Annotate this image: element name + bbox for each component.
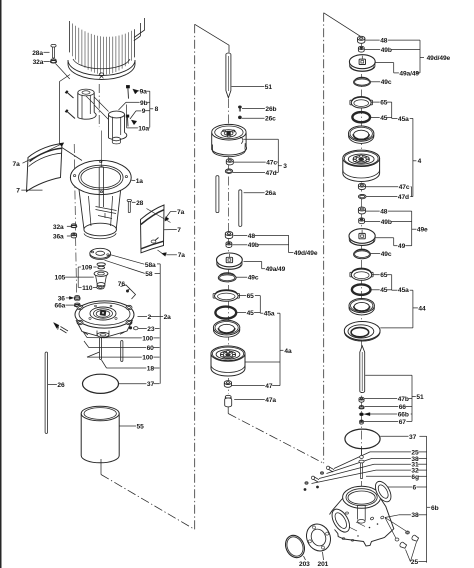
svg-text:7a: 7a [13,161,21,168]
side screw axis [74,144,76,293]
svg-text:65: 65 [247,293,255,300]
casing left port [328,506,353,535]
svg-text:26a: 26a [265,190,276,197]
label 47c r1 [366,184,410,191]
svg-text:49d/49e: 49d/49e [427,55,451,62]
svg-text:23: 23 [147,326,155,333]
svg-text:51: 51 [265,84,273,91]
impeller 49a r1 [349,55,375,72]
bracket 109-110 [78,267,81,287]
label 49a/49 mid [266,266,286,273]
svg-text:4a: 4a [284,348,292,355]
nut 47b [359,397,364,402]
label 100 lower [87,352,160,362]
label 105 [55,275,94,282]
label 7a left [13,161,21,168]
svg-text:48: 48 [380,209,388,216]
svg-text:7a: 7a [177,209,185,216]
casing 6 top flange [343,486,381,508]
label 38 bottom [399,512,427,519]
chamber 4 [343,150,380,181]
washer 66a [74,303,80,307]
label 110 [82,285,96,292]
washer 66b [360,413,364,416]
shaft seal 105 [94,271,108,288]
svg-text:47c: 47c [399,184,410,191]
stool body [79,190,121,239]
nut 49b r2 [359,218,365,224]
label 28a [32,50,49,57]
label 48 r2 [366,209,412,216]
svg-text:48: 48 [248,233,256,240]
seal driver seen through window [96,207,117,219]
section boundary right corner [324,13,362,37]
leader 36 with arrow [66,296,74,299]
label 49b r1 [365,47,420,54]
screw 6g [359,448,364,500]
label 60 [84,341,160,352]
impeller 49a mid [217,253,243,269]
section boundary mid diagonal [228,414,324,464]
label 49e [417,227,428,234]
coupling explode lines [86,96,109,120]
coupling half 10a upper [78,89,96,119]
label 9 [130,108,150,119]
svg-text:2a: 2a [164,314,172,321]
svg-text:25: 25 [411,559,419,566]
svg-text:2: 2 [148,314,152,321]
label 9a [140,89,150,96]
section boundary right vertical [323,13,325,464]
bracket 45a mid [260,296,263,314]
washer 38c [395,538,399,541]
o-ring 45 mid [215,307,236,319]
sleeve 55 [81,406,119,463]
svg-text:100: 100 [142,355,153,362]
coupling screw 9 right [126,115,129,127]
flange 201 [302,520,334,555]
leader 7a left [23,143,64,163]
pump head corner lugs [77,305,132,324]
svg-text:201: 201 [318,561,329,568]
svg-text:32a: 32a [33,59,44,66]
impeller 3 [212,124,247,156]
coupling guard 7 left [27,144,63,192]
svg-text:67: 67 [399,419,407,426]
svg-text:45: 45 [247,310,255,317]
bracket 3 [243,139,281,172]
bracket 45a r2 [392,275,398,291]
label 100 upper [83,332,160,343]
svg-text:49b: 49b [248,242,259,249]
svg-text:7a: 7a [178,252,186,259]
oring 47d mid [225,169,232,173]
label 26a [244,190,277,197]
svg-text:55: 55 [137,423,145,430]
label 65 mid [238,293,260,300]
leader 38 bottom diagonals [385,515,406,538]
staybolt 26a right [239,190,242,227]
gasket 37 left [83,374,119,393]
label 4 [418,158,422,165]
svg-text:10a: 10a [138,125,149,132]
label 7a right bottom [178,252,186,259]
section boundary left bottom diagonal [101,459,195,530]
svg-text:203: 203 [299,561,310,568]
pump head lower body [76,320,133,338]
svg-text:47c: 47c [266,160,277,167]
svg-text:76: 76 [118,281,126,288]
label 49c r2 [371,251,392,258]
svg-text:45: 45 [380,287,388,294]
label 49d/49e right [427,55,451,62]
stud small dots [304,486,319,491]
arrow to screw 9a [133,89,140,94]
pump head top face [79,303,130,325]
nut 67 [360,420,364,424]
label 7a right top [177,209,185,216]
svg-text:100: 100 [142,335,153,342]
label 18 [102,360,160,372]
label 2a [160,314,172,321]
label 67 [364,419,412,426]
motor flange drain hole [99,73,103,79]
ball 26c [238,116,241,119]
bracket 49a/49 r1 [376,63,421,73]
section boundary left corner [195,24,229,52]
motor M1 cooling fins [70,21,135,75]
group bracket 58-37 [155,264,161,384]
screw 26b [238,106,241,112]
label 55 [119,423,144,430]
neck ring 49c r1 [354,77,371,86]
svg-text:36a: 36a [53,233,64,240]
arrow to screw 9 [131,120,137,125]
stud 100 left [99,338,101,360]
shaft inside stool [99,167,103,207]
svg-text:65: 65 [380,272,388,279]
svg-text:49b: 49b [381,219,392,226]
ring 110 [97,286,104,289]
label 49b r2 [365,219,412,226]
bracket 49d/49e right [420,40,424,73]
label 31 [319,462,427,479]
svg-text:48: 48 [380,38,388,45]
coupling guard 7 right [141,205,165,253]
svg-text:4: 4 [418,158,422,165]
svg-text:36: 36 [58,295,66,302]
svg-text:45: 45 [380,115,388,122]
seal carrier r2 [349,299,374,315]
svg-text:37: 37 [147,381,155,388]
label 203 [299,556,310,568]
nut 36a [71,233,76,238]
label 32 [312,468,427,484]
chamber ring 65 r2 [350,268,373,280]
label 25 bottom [411,559,427,566]
stool window edges [89,196,113,226]
svg-text:28: 28 [136,200,144,207]
nut 47c r1 [358,183,365,189]
stool flange bolt holes [73,161,127,193]
coupling panel edge [60,75,83,161]
svg-text:60: 60 [147,345,155,352]
svg-text:47d: 47d [266,170,277,177]
label 28 [132,200,144,207]
svg-text:6g: 6g [411,474,419,481]
seal carrier mid [213,320,239,337]
chamber ring 65 r1 [350,97,373,108]
svg-text:47: 47 [265,383,273,390]
svg-text:65: 65 [380,100,388,107]
svg-text:49c: 49c [381,251,392,258]
label 51 lower [416,394,424,401]
shaft line above stool [100,131,102,167]
label 201 [318,552,329,568]
svg-text:58: 58 [145,271,153,278]
svg-text:47a: 47a [265,397,276,404]
leader 7a right bottom [158,250,177,256]
svg-text:49a/49: 49a/49 [266,266,286,273]
label 8 [155,106,159,113]
svg-text:26b: 26b [265,106,276,113]
svg-text:105: 105 [55,275,66,282]
coupling screw 9a left [65,91,73,99]
svg-text:1a: 1a [136,178,144,185]
o-ring 45 r2 [352,284,371,294]
label 7 left [16,188,42,195]
svg-text:28a: 28a [32,50,43,57]
label 76 [118,281,126,288]
leader 25 bottom diagonals [406,542,417,562]
pump head centre boss [90,307,116,320]
screw 28a [51,44,56,58]
bracket 49 [375,238,411,246]
svg-text:45a: 45a [398,287,409,294]
pin 76 [121,285,136,299]
washer 36 [74,296,80,301]
svg-text:6b: 6b [431,505,439,512]
svg-text:58a: 58a [145,262,156,269]
section boundary left vertical [194,24,196,529]
label 4a [284,348,292,355]
svg-text:7: 7 [16,188,20,195]
label 45 mid [237,310,261,317]
label 66a [55,303,74,310]
svg-text:49d/49e: 49d/49e [294,250,318,257]
svg-text:26: 26 [57,382,65,389]
label 6b [431,505,439,512]
svg-text:49b: 49b [381,47,392,54]
nut 48 mid [225,232,232,239]
label 23 [138,326,159,333]
pump head small features [89,305,117,319]
svg-text:26c: 26c [265,116,276,123]
gasket 37 right [345,429,380,449]
o-ring 45 r1 [352,112,370,122]
circlip 109 [97,263,105,269]
svg-text:110: 110 [82,285,93,292]
chamber ring 65 mid [213,290,239,301]
label 66 [364,404,412,411]
stud 31 [312,476,320,482]
stud 25 [327,466,335,472]
bracket 51 lower [365,375,416,421]
o-ring 203 [282,532,308,560]
label 45a r2 [398,287,409,294]
label 49a/49 r1 [399,70,419,77]
label 65 r1 [371,100,391,107]
washer 66 [359,406,364,409]
label 47 [232,383,273,390]
label 26c [242,116,276,123]
label 3 [283,163,287,170]
svg-text:49c: 49c [381,79,392,86]
svg-text:37: 37 [409,434,417,441]
label 47c mid [234,160,278,167]
svg-text:49c: 49c [248,275,259,282]
shaft continuation line 47a [227,407,229,414]
svg-text:6: 6 [413,484,417,491]
label 36 [58,295,66,302]
seal carrier r1 [349,126,374,143]
coupling screw 9a right [126,85,129,98]
neck ring 49c mid [218,273,236,282]
coupling centre axis [98,84,100,127]
svg-text:47d: 47d [398,194,409,201]
bearing 47a [225,395,232,407]
label 26b [242,106,277,113]
label 6 [382,484,427,491]
svg-text:47b: 47b [398,396,409,403]
svg-text:49a/49: 49a/49 [399,70,419,77]
coupling screw 9 left [65,110,75,119]
chamber 4a [211,346,245,376]
impeller 49 r2 [349,229,375,246]
svg-text:66b: 66b [398,411,409,418]
washer 58a [90,248,111,259]
nut 49b mid [226,242,232,248]
shaft 51 [226,53,231,98]
label 45 r1 [370,115,392,122]
label 49 [398,243,406,250]
label 49c r1 [371,79,392,86]
label 48 r1 [365,38,420,45]
label 51 top [232,84,273,91]
shaft 51 lower [360,346,365,393]
label 66b [370,411,412,418]
nut 47c mid [226,159,233,165]
label 109 [81,264,96,271]
svg-text:66: 66 [399,404,407,411]
label 49b mid [232,242,288,249]
label 26 [48,382,65,389]
label 36a [53,233,71,240]
side bolt with arrow [54,323,69,334]
bracket 49a/49 mid [244,262,266,269]
label 38 top [327,456,427,474]
svg-text:32a: 32a [53,224,64,231]
label 6g [366,474,427,481]
impeller 3 seal tab [240,137,243,143]
label 58 [105,260,153,278]
svg-text:3: 3 [283,163,287,170]
label 49d/49e mid [294,250,318,257]
guard screw [151,238,158,244]
label 10a [127,125,150,132]
bolt 25a [411,535,419,542]
label 47d r1 [366,194,411,201]
svg-text:44: 44 [418,305,426,312]
svg-text:9b: 9b [140,100,148,107]
svg-text:18: 18 [147,365,155,372]
right column axis [360,43,362,455]
svg-text:38: 38 [411,512,419,519]
svg-text:8: 8 [155,106,159,113]
washer 32a lower [71,224,77,228]
label 45 r2 [371,287,392,294]
staybolt 26 [45,352,47,433]
leader 7a right top [147,209,177,223]
label 47b [364,396,412,403]
label 44 [418,305,426,312]
motor stool 1a flange [70,160,131,194]
svg-text:9: 9 [142,108,146,115]
label 37 left [119,381,160,388]
label 25 top [334,449,427,468]
svg-text:49: 49 [398,243,406,250]
bolt 25b [399,542,407,549]
motor terminal lug [134,18,145,41]
nut 47 mid [224,381,231,388]
nut 49b r1 [358,46,364,52]
label 37 right [380,434,426,441]
staybolt 26a left [216,176,219,213]
svg-text:49e: 49e [417,227,428,234]
casing right port [372,479,394,505]
vertical tick above 10a leader [126,105,128,128]
bracket 6b [427,436,431,562]
neck ring 49c r2 [354,249,371,259]
label 47d mid [233,170,278,177]
washer 32a [51,59,57,63]
bracket 4a [245,313,283,385]
label 9b [119,100,150,110]
svg-text:51: 51 [416,394,424,401]
label 65 r2 [372,272,392,279]
oring 47d r1 [358,194,366,198]
coupling half 10a lower [109,111,127,144]
pump head bottom sleeve [97,331,109,338]
label 32a [33,59,50,66]
bracket 47c/47d r1 [410,187,413,197]
svg-text:45a: 45a [398,116,409,123]
bracket 45a r1 [392,102,398,118]
casing 6 body [330,499,394,547]
insertion line from 32a to motor flange [56,64,70,80]
bracket 44 [380,290,418,328]
washer 38b [406,531,410,534]
label 32a [53,224,71,231]
label 47a [234,397,276,404]
label 1a [131,178,143,185]
label 2 [138,314,160,321]
page left edge [0,0,2,568]
bracket 49d/49e mid [289,235,294,252]
casing bosses [342,512,384,541]
label 58a [111,255,156,269]
label 45a mid [264,311,275,318]
